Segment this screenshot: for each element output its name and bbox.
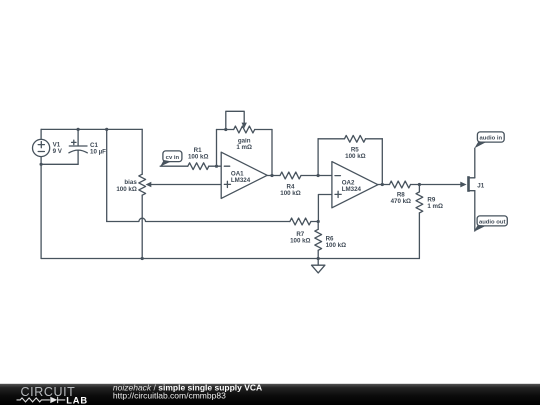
label R6 100 kΩ <box>326 236 346 250</box>
junction V1-C1-rail <box>40 163 43 166</box>
transistor J1 <box>467 176 475 192</box>
junction OA2 inverting <box>317 174 320 177</box>
resistor R8 <box>390 181 411 188</box>
junction R7-R6-OA2+ <box>317 220 320 223</box>
capacitor C1 <box>69 129 87 164</box>
label R9 1 mΩ <box>427 196 443 210</box>
svg-text:audio in: audio in <box>480 136 503 142</box>
svg-text:100 kΩ: 100 kΩ <box>188 154 208 161</box>
wire feedback up <box>216 130 218 167</box>
junction R1-feedback <box>215 165 218 168</box>
svg-text:470 kΩ: 470 kΩ <box>391 198 411 205</box>
wire OA1 output <box>267 175 280 177</box>
svg-text:100 kΩ: 100 kΩ <box>290 238 310 245</box>
svg-text:100 kΩ: 100 kΩ <box>345 153 365 160</box>
svg-text:1 mΩ: 1 mΩ <box>236 144 252 151</box>
svg-text:audio out: audio out <box>479 220 506 226</box>
label gain 1 mΩ <box>236 137 252 151</box>
junction gain wiper <box>224 128 227 131</box>
svg-text:LM324: LM324 <box>342 186 362 193</box>
svg-text:J1: J1 <box>477 183 484 190</box>
wire gate with arrow <box>419 182 466 188</box>
svg-text:LAB: LAB <box>66 396 88 405</box>
wire +9V rail <box>41 128 142 130</box>
potentiometer bias <box>139 129 152 258</box>
label cv in <box>166 155 180 161</box>
label R4 100 kΩ <box>280 183 300 197</box>
wire R5 down to OA2 out <box>381 139 383 185</box>
wire V1 bottom <box>40 157 42 165</box>
label R1 100 kΩ <box>188 147 208 160</box>
svg-text:10 µF: 10 µF <box>90 148 106 155</box>
wire left down to ground rail <box>40 164 42 258</box>
svg-text:100 kΩ: 100 kΩ <box>280 190 300 197</box>
label R8 470 kΩ <box>391 191 411 205</box>
label OA2 LM324 <box>342 180 362 194</box>
wire bottom ground rail <box>41 258 419 260</box>
wire OA2 output <box>378 184 390 186</box>
flag audio in <box>474 132 504 148</box>
wire to R7 with hop <box>107 218 290 221</box>
svg-text:100 kΩ: 100 kΩ <box>326 242 346 249</box>
logo resistor-diode line <box>17 397 66 403</box>
junction R6-rail <box>317 257 320 260</box>
wire cv in to R1 <box>160 165 188 167</box>
potentiometer gain <box>217 111 273 133</box>
wire R8 to gate node <box>411 184 420 186</box>
label C1 10 µF <box>90 142 106 156</box>
wire R4 to OA2 - <box>301 175 332 177</box>
flag audio out <box>474 216 508 232</box>
wire R7 to node <box>311 221 318 223</box>
voltage source V1 <box>33 139 50 156</box>
footer title text <box>113 382 262 392</box>
junction OA1 out <box>270 174 273 177</box>
svg-text:http://circuitlab.com/cmmbp83: http://circuitlab.com/cmmbp83 <box>113 390 226 400</box>
label R7 100 kΩ <box>290 231 310 245</box>
svg-text:LM324: LM324 <box>231 177 251 184</box>
wire R1 to OA1 - <box>209 165 221 167</box>
wire bias wiper to OA1 + <box>151 184 222 186</box>
svg-text:100 kΩ: 100 kΩ <box>116 186 136 193</box>
label R5 100 kΩ <box>345 147 365 161</box>
label audio in <box>480 136 503 142</box>
wire source down <box>474 191 476 231</box>
junction bias-rail <box>141 257 144 260</box>
wire OA2 + input <box>318 195 332 222</box>
resistor R4 <box>280 172 301 179</box>
wire V1 top <box>40 129 42 139</box>
wire rail down to R7 <box>106 129 108 221</box>
wire drain up <box>474 148 476 178</box>
wire node up to R5 <box>317 139 319 176</box>
op-amp OA1 <box>221 152 267 198</box>
wire C1 bottom <box>41 163 78 165</box>
label OA1 LM324 <box>231 170 251 184</box>
junction rail-R7 branch <box>105 128 108 131</box>
op-amp OA2 <box>332 162 378 208</box>
ground <box>312 259 325 273</box>
junction OA2 out <box>381 183 384 186</box>
resistor R9 <box>416 185 423 259</box>
resistor R6 <box>315 222 322 259</box>
label J1 <box>477 183 484 190</box>
label audio out <box>479 220 506 226</box>
svg-text:1 mΩ: 1 mΩ <box>427 203 443 210</box>
resistor R5 <box>318 135 382 142</box>
resistor R1 <box>188 163 209 170</box>
wire feedback down <box>271 130 273 176</box>
logo CIRCUIT <box>21 385 76 399</box>
svg-text:cv in: cv in <box>166 155 180 161</box>
junction R8-R9-gate <box>418 183 421 186</box>
logo LAB <box>66 396 88 405</box>
footer bar <box>0 384 540 405</box>
flag cv in <box>160 151 182 167</box>
label bias 100 kΩ <box>116 179 137 193</box>
svg-text:9 V: 9 V <box>53 148 63 155</box>
label V1 9 V <box>53 141 63 155</box>
junction rail-C1 <box>77 128 80 131</box>
footer url text <box>113 390 226 400</box>
resistor R7 <box>290 218 311 225</box>
